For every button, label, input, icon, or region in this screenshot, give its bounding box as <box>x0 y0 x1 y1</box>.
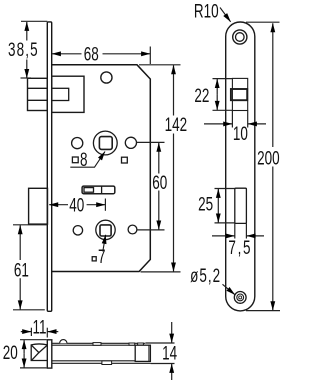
left view: lock body outline <box>52 65 151 272</box>
svg-text:68: 68 <box>84 44 99 65</box>
svg-text:40: 40 <box>69 195 84 216</box>
svg-text:11: 11 <box>33 318 47 339</box>
svg-text:14: 14 <box>162 343 177 364</box>
left view: middle slot bar <box>82 186 115 194</box>
bottom view: latch wedge <box>31 344 47 361</box>
left view: row2 right hole <box>128 225 137 234</box>
left view: small square right <box>122 157 128 163</box>
svg-text:22: 22 <box>194 86 209 107</box>
dimension 40 <box>49 199 105 211</box>
dimension 7,5 <box>212 223 264 238</box>
left view: faceplate strip <box>47 22 51 311</box>
bottom view: bottom tab <box>102 361 112 365</box>
left view: row2 follower circle <box>96 220 115 239</box>
bottom view: top tabs <box>93 343 143 346</box>
svg-text:142: 142 <box>165 115 188 136</box>
left view: row1 right hole <box>125 137 136 148</box>
left view: row2 left hole <box>73 226 82 235</box>
right view: plate outline <box>226 22 255 311</box>
bottom view: faceplate bar <box>47 340 52 368</box>
svg-text:61: 61 <box>14 260 29 281</box>
left view: row1 left hole <box>72 138 83 149</box>
svg-text:25: 25 <box>198 195 213 216</box>
dimension 20 <box>20 340 47 368</box>
bottom view: body bottom lines <box>52 361 151 364</box>
label 7 with leader <box>92 257 96 261</box>
svg-text:20: 20 <box>3 343 18 364</box>
right view: latch bolt in cutout <box>231 89 247 100</box>
dimension 14 <box>145 322 174 380</box>
dimension 11 <box>21 328 59 338</box>
dimension 61 <box>13 225 48 310</box>
svg-text:ø5,2: ø5,2 <box>190 266 221 287</box>
dimension 10 <box>204 111 266 128</box>
bottom view: right end block <box>135 345 150 361</box>
dimension 22 <box>213 79 233 111</box>
right view: deadbolt cutout <box>235 188 247 223</box>
dimension 200 <box>246 22 280 310</box>
left view: latch bolt protruding <box>28 78 48 110</box>
left view: latch case big rect <box>52 76 84 112</box>
left view: row1 follower circle <box>93 131 117 155</box>
dimension 68 <box>52 47 150 65</box>
svg-text:10: 10 <box>233 124 248 145</box>
left view: small square left of 8 <box>72 157 78 163</box>
left view: row2 follower square 7mm <box>100 225 111 236</box>
bottom view: bump <box>60 340 67 344</box>
svg-text:R10: R10 <box>194 2 219 23</box>
right view: top screw hole <box>233 30 247 44</box>
left view: top hole <box>101 72 112 83</box>
dimension 38,5 <box>21 21 48 78</box>
svg-text:7: 7 <box>98 247 106 268</box>
dimension 142 <box>139 65 181 272</box>
svg-text:60: 60 <box>152 173 167 194</box>
svg-text:200: 200 <box>257 149 280 170</box>
left view: row1 follower square 8mm <box>99 137 112 150</box>
right view: latch cutout <box>232 78 247 110</box>
left view: deadbolt protruding <box>29 188 48 224</box>
right view: bottom screw hole <box>234 292 246 304</box>
svg-text:38,5: 38,5 <box>8 40 39 61</box>
svg-text:7,5: 7,5 <box>228 238 252 259</box>
bottom view: body top double line <box>52 343 145 345</box>
left view: latch tail small rect <box>52 88 69 100</box>
dimension 60 <box>137 142 165 230</box>
dimension 25 <box>215 189 235 223</box>
